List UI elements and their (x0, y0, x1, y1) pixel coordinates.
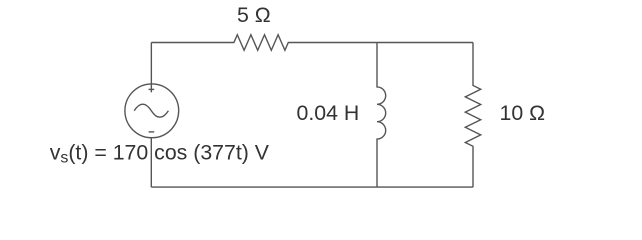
svg-text:0.04 H: 0.04 H (297, 101, 360, 125)
svg-text:5 Ω: 5 Ω (237, 3, 271, 27)
svg-text:10 Ω: 10 Ω (500, 101, 546, 125)
svg-text:vs(t) = 170 cos (377t) V: vs(t) = 170 cos (377t) V (50, 141, 270, 167)
